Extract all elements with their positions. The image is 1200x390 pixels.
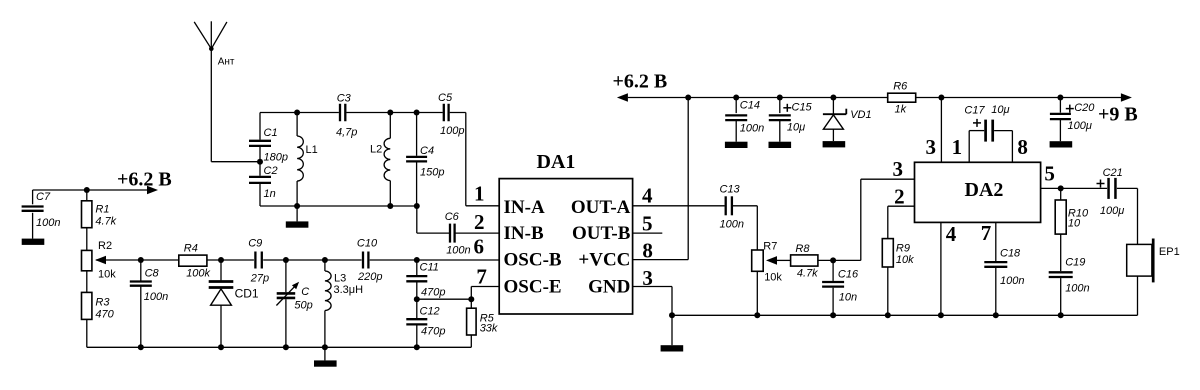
resistor R5 [467, 299, 498, 347]
svg-text:R9: R9 [896, 243, 910, 255]
junction CD1 top [218, 257, 224, 263]
junction C11-C12 node [414, 296, 420, 302]
wire antenna lead [210, 49, 212, 162]
svg-text:C9: C9 [248, 238, 262, 250]
inductor L3 [325, 260, 363, 347]
svg-text:470p: 470p [421, 287, 445, 299]
variable capacitor C [276, 260, 312, 347]
junction R7/bus [754, 312, 760, 318]
svg-text:8: 8 [1017, 135, 1028, 159]
svg-text:+VCC: +VCC [578, 250, 630, 271]
wire C13-R7 [733, 205, 757, 207]
junction L1 top [294, 110, 300, 116]
wire R2-R3 [86, 271, 88, 293]
junction VD1/rail [830, 95, 836, 101]
junction C8 bottom [138, 344, 144, 350]
resistor R8 [791, 243, 819, 280]
svg-text:10n: 10n [839, 292, 857, 304]
svg-text:6: 6 [474, 235, 485, 259]
junction C4 bottom [414, 203, 420, 209]
amplifier IC DA2 [915, 162, 1041, 222]
svg-text:27p: 27p [250, 273, 269, 285]
junction DA2 pin3 top/rail [938, 95, 944, 101]
wire C21-EP1 [1117, 187, 1138, 189]
svg-text:VD1: VD1 [850, 109, 871, 121]
ground below C15 [769, 142, 792, 148]
ground below C20 [1050, 141, 1073, 147]
junction R5 top node [468, 296, 474, 302]
capacitor C18 [984, 248, 1024, 316]
wire DA1 pin1 [465, 113, 467, 206]
svg-text:OUT-A: OUT-A [571, 197, 631, 218]
junction C18/bus [993, 312, 999, 318]
svg-text:100n: 100n [720, 219, 744, 231]
svg-text:4: 4 [946, 222, 957, 246]
svg-text:C20: C20 [1074, 102, 1095, 114]
capacitor C10 [357, 238, 383, 284]
svg-text:C21: C21 [1103, 167, 1123, 179]
svg-text:IN-B: IN-B [504, 223, 544, 244]
svg-text:7: 7 [981, 221, 992, 245]
svg-text:C5: C5 [438, 92, 453, 104]
junction R10 top [1058, 185, 1064, 191]
power +6.2 В left arrow [147, 186, 158, 195]
junction C8 top [138, 257, 144, 263]
arrow R2 wiper [95, 256, 106, 265]
wire +6.2V left rail [33, 189, 148, 191]
svg-text:50p: 50p [294, 300, 312, 312]
svg-text:C11: C11 [420, 262, 439, 274]
svg-text:L3: L3 [334, 273, 346, 285]
junction C4 top [414, 110, 420, 116]
capacitor C9 [248, 238, 269, 285]
junction C20/rail [1057, 95, 1063, 101]
svg-text:10k: 10k [764, 272, 782, 284]
svg-text:C7: C7 [36, 191, 51, 203]
svg-text:+6.2 В: +6.2 В [613, 71, 668, 93]
svg-text:L2: L2 [370, 144, 382, 156]
junction C16 top [830, 257, 836, 263]
capacitor C3 [336, 93, 357, 139]
ground below C7 [22, 239, 45, 245]
wire DA1 pin7 [470, 287, 472, 300]
svg-text:Ант: Ант [218, 57, 235, 68]
zener diode VD1 [823, 98, 872, 142]
resistor R3 [82, 292, 115, 320]
svg-text:100n: 100n [740, 123, 764, 135]
wire DA2 pin1 top [968, 131, 970, 163]
ground below VD1 [823, 141, 846, 147]
power +6.2 В middle arrow [617, 93, 628, 102]
svg-text:150p: 150p [420, 167, 444, 179]
svg-text:R8: R8 [795, 243, 810, 255]
capacitor C6 [445, 211, 471, 257]
svg-text:C10: C10 [357, 238, 378, 250]
svg-text:R7: R7 [763, 241, 777, 253]
svg-text:C18: C18 [1000, 248, 1021, 260]
svg-text:100n: 100n [446, 245, 470, 257]
svg-text:5: 5 [1044, 162, 1055, 186]
svg-text:DA2: DA2 [965, 179, 1004, 201]
svg-text:4,7p: 4,7p [336, 126, 357, 138]
capacitor C20 [1050, 98, 1095, 142]
svg-text:C3: C3 [337, 93, 352, 105]
svg-text:C12: C12 [420, 306, 440, 318]
svg-text:100μ: 100μ [1100, 205, 1124, 217]
junction L2 top [387, 110, 393, 116]
junction antenna/C1/C2 node [257, 159, 263, 165]
junction C var bottom [283, 344, 289, 350]
wire C4-C6 [416, 206, 418, 233]
svg-text:C16: C16 [838, 269, 859, 281]
svg-text:C2: C2 [264, 165, 278, 177]
wire DA2 pin8 top [1011, 131, 1013, 163]
svg-text:100n: 100n [1065, 283, 1089, 295]
svg-text:10μ: 10μ [787, 122, 805, 134]
svg-text:4.7k: 4.7k [797, 268, 818, 280]
svg-text:C: C [301, 286, 309, 298]
svg-text:C8: C8 [145, 268, 160, 280]
capacitor C2 [249, 165, 278, 206]
svg-text:7: 7 [476, 264, 487, 288]
capacitor C11 [406, 260, 445, 299]
svg-text:C15: C15 [792, 102, 813, 114]
svg-text:OSC-E: OSC-E [504, 277, 562, 298]
junction C var top [283, 257, 289, 263]
svg-text:OSC-B: OSC-B [504, 250, 562, 271]
wire DA1 pin3 gnd [633, 286, 672, 288]
svg-text:R3: R3 [95, 297, 110, 309]
svg-text:180p: 180p [264, 152, 288, 164]
svg-text:100k: 100k [186, 268, 210, 280]
junction R9/bus [885, 312, 891, 318]
wire tank bottom [260, 205, 417, 207]
svg-text:C14: C14 [740, 100, 760, 112]
wire ground bus [672, 314, 1138, 316]
inductor L2 [370, 113, 390, 207]
wire DA2 pin2 left [888, 205, 915, 207]
svg-text:100n: 100n [36, 217, 60, 229]
svg-text:C13: C13 [720, 184, 741, 196]
svg-text:3: 3 [926, 135, 937, 159]
svg-text:10k: 10k [98, 269, 116, 281]
svg-text:CD1: CD1 [235, 287, 259, 301]
svg-text:R2: R2 [98, 240, 112, 252]
wire EP1 bottom [1137, 276, 1139, 315]
svg-text:10μ: 10μ [991, 104, 1009, 116]
capacitor C13 [720, 184, 744, 231]
svg-text:100n: 100n [1000, 275, 1024, 287]
svg-text:1: 1 [474, 182, 485, 206]
ground below DA1 [671, 315, 673, 345]
svg-text:3: 3 [892, 157, 903, 181]
wire DA2 pin4 [940, 222, 942, 315]
op-amp IC DA1 [499, 151, 632, 314]
svg-text:OUT-B: OUT-B [572, 223, 631, 244]
svg-text:C4: C4 [420, 145, 434, 157]
svg-text:+6.2 В: +6.2 В [117, 168, 172, 190]
svg-text:4.7k: 4.7k [95, 216, 116, 228]
wire R7-R8 [777, 259, 791, 261]
svg-text:10k: 10k [896, 254, 914, 266]
capacitor C14 [725, 98, 764, 142]
junction C14/rail [733, 95, 739, 101]
wire C9-C10 [263, 259, 361, 261]
svg-text:220p: 220p [357, 271, 382, 283]
wire R4-C9 [207, 259, 254, 261]
junction C19/bus [1058, 312, 1064, 318]
svg-text:470p: 470p [421, 326, 445, 338]
wire OSC-E link [417, 298, 472, 300]
capacitor C21 [1097, 167, 1125, 217]
junction L2 bottom [387, 203, 393, 209]
svg-text:C17: C17 [964, 105, 985, 117]
ground below L1 [296, 206, 298, 221]
wire R10-C19 [1060, 234, 1062, 271]
capacitor C5 [438, 92, 464, 137]
svg-text:100p: 100p [440, 125, 464, 137]
power +9 В arrow [1121, 93, 1132, 102]
wire R7 bottom [756, 271, 758, 315]
svg-text:1k: 1k [895, 104, 907, 116]
capacitor C12 [406, 299, 445, 347]
wire R2 wiper [96, 259, 179, 261]
svg-text:DA1: DA1 [537, 151, 576, 173]
wire DA2 pin5 [1041, 187, 1108, 189]
svg-text:L1: L1 [306, 144, 318, 156]
ground below L3 [324, 347, 326, 360]
varicap CD1 [209, 260, 259, 347]
svg-text:8: 8 [642, 238, 653, 262]
potentiometer R2 [82, 240, 117, 281]
wire DA1 pin5 stub [633, 232, 663, 234]
wire left ground bus [87, 346, 472, 348]
wire rail after R6 [916, 97, 1121, 99]
svg-text:1: 1 [952, 135, 963, 159]
svg-text:+9 В: +9 В [1098, 104, 1138, 126]
junction C16/bus [830, 312, 836, 318]
svg-text:R1: R1 [95, 204, 109, 216]
svg-text:2: 2 [894, 185, 905, 209]
svg-text:100μ: 100μ [1068, 120, 1092, 132]
wire +6.2V rail [628, 97, 888, 99]
svg-text:R4: R4 [184, 243, 198, 255]
wire R1 top [86, 190, 88, 201]
arrow R7 wiper [766, 256, 777, 265]
junction C15/rail [777, 95, 783, 101]
capacitor C17 [964, 104, 1012, 142]
svg-text:C19: C19 [1065, 257, 1085, 269]
junction L1 bottom [294, 203, 300, 209]
wire DA1 pin8 VCC [633, 259, 689, 261]
wire DA1 pin2 [455, 232, 499, 234]
ground below C14 [725, 142, 748, 148]
junction R1 top / rail [84, 187, 90, 193]
svg-text:2: 2 [474, 210, 485, 234]
svg-text:EP1: EP1 [1159, 246, 1180, 258]
wire R3 bottom [86, 319, 88, 347]
wire DA2 pin3 top [940, 98, 942, 163]
capacitor C7 [22, 190, 61, 239]
svg-text:3.3μH: 3.3μH [334, 284, 364, 296]
wire R8-C16 [818, 259, 861, 261]
capacitor C15 [769, 98, 813, 142]
resistor R6 [888, 81, 916, 116]
svg-text:10: 10 [1068, 218, 1081, 230]
capacitor C19 [1049, 257, 1090, 316]
svg-text:C1: C1 [264, 127, 278, 139]
junction C11 top [414, 257, 420, 263]
junction VCC/rail [685, 95, 691, 101]
resistor R1 [82, 201, 117, 228]
svg-text:C6: C6 [445, 211, 460, 223]
capacitor C4 [406, 113, 444, 207]
svg-text:4: 4 [642, 184, 653, 208]
speaker EP1 [1127, 239, 1180, 283]
svg-text:470: 470 [95, 309, 114, 321]
junction CD1 bottom [218, 344, 224, 350]
wire DA2 pin7 [995, 222, 997, 261]
potentiometer R7 [752, 241, 783, 284]
svg-text:R6: R6 [893, 81, 908, 93]
junction C12 bottom [414, 344, 420, 350]
wire R1-R2 [86, 228, 88, 251]
capacitor C1 [249, 113, 288, 176]
resistor R4 [179, 243, 211, 280]
capacitor C16 [822, 260, 859, 315]
antenna Ант [194, 21, 235, 67]
wire DA1 pin4 out [633, 205, 725, 207]
wire C10-DA1 pin6 [370, 259, 500, 261]
svg-text:GND: GND [588, 277, 630, 298]
svg-text:5: 5 [642, 212, 653, 236]
junction pin3/bus [669, 312, 675, 318]
wire tank top [260, 112, 339, 114]
junction pin4/bus [938, 312, 944, 318]
wire DA2 pin3 left [860, 179, 862, 260]
resistor R9 [882, 239, 914, 267]
svg-text:1n: 1n [264, 188, 276, 200]
resistor R10 [1055, 188, 1089, 234]
inductor L1 [297, 113, 318, 207]
junction L3 bottom [322, 344, 328, 350]
svg-text:IN-A: IN-A [504, 197, 545, 218]
wire R9 bottom [887, 267, 889, 315]
svg-text:100n: 100n [144, 291, 168, 303]
junction L3 top [322, 257, 328, 263]
capacitor C8 [130, 260, 168, 347]
svg-text:33k: 33k [480, 323, 498, 335]
